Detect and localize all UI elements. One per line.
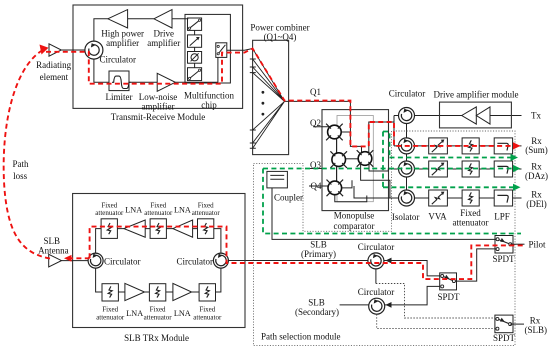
circulator SLB secondary xyxy=(369,298,385,314)
svg-text:(Sum): (Sum) xyxy=(525,145,548,155)
svg-text:Rx: Rx xyxy=(531,162,542,172)
svg-text:Circulator: Circulator xyxy=(358,287,395,297)
fixed attenuator row3 DAz xyxy=(462,161,479,177)
wire DAz row xyxy=(415,168,522,170)
green bypass1 arrowhead xyxy=(511,154,519,161)
svg-text:Path selection module: Path selection module xyxy=(261,332,340,342)
wire Q1 output xyxy=(285,100,351,102)
wire coupler to SLB primary line xyxy=(272,188,496,240)
SPDT mid box xyxy=(440,273,457,290)
drive amplifier stage 1 xyxy=(462,107,477,124)
chip attenuator cell 2 xyxy=(188,35,202,47)
multifunction chip box xyxy=(185,14,230,83)
isolator row4 DEl xyxy=(399,190,415,206)
svg-text:Q1: Q1 xyxy=(310,87,321,97)
hybrid h1 (Q2) xyxy=(326,124,343,141)
top fixed attenuator 3 xyxy=(198,219,214,239)
svg-text:LNA: LNA xyxy=(174,309,191,318)
svg-text:Tx: Tx xyxy=(531,111,541,121)
high power amplifier xyxy=(108,10,128,28)
circulator SLB right xyxy=(213,253,228,268)
limiter xyxy=(109,71,129,91)
svg-text:attenuator: attenuator xyxy=(192,209,221,217)
chip cell connector wires xyxy=(194,30,196,67)
svg-text:element: element xyxy=(40,72,69,82)
chip switch cell 1 xyxy=(188,18,202,30)
wire h4 termination U xyxy=(335,195,367,202)
svg-text:attenuator: attenuator xyxy=(144,209,173,217)
top fixed attenuator 2 xyxy=(150,219,166,239)
fixed attenuator row2 Sum xyxy=(462,138,479,154)
combiner fan lines xyxy=(253,49,285,149)
LPF row2 Sum xyxy=(494,138,512,154)
green bypass2 line xyxy=(383,186,514,188)
drive amplifier xyxy=(154,10,172,28)
LPF row4 DEl xyxy=(494,190,512,206)
chip SPDT switch xyxy=(216,43,227,58)
wire chip switch to bottom xyxy=(217,57,219,82)
VVA row2 Sum xyxy=(429,138,448,154)
green DAz arrowhead xyxy=(513,165,521,172)
circulator row3 DAz xyxy=(399,161,415,177)
svg-text:Isolator: Isolator xyxy=(392,212,420,222)
bottom row wire xyxy=(96,268,221,292)
svg-text:Circulator: Circulator xyxy=(104,256,141,266)
combiner input stubs xyxy=(250,59,256,148)
wire pilot xyxy=(510,243,524,245)
inner gray box xyxy=(337,116,373,202)
svg-text:LNA: LNA xyxy=(125,206,142,215)
wire h3 to h4 xyxy=(336,166,338,182)
svg-text:amplifier: amplifier xyxy=(147,38,180,48)
circulator column connector wires xyxy=(406,124,408,191)
svg-text:(Secondary): (Secondary) xyxy=(295,307,339,317)
wire Tx row xyxy=(415,115,522,117)
svg-text:Fixed: Fixed xyxy=(460,208,481,218)
svg-text:High power: High power xyxy=(101,29,144,39)
top LNA 2 xyxy=(173,220,193,237)
red Rx Sum arrowhead xyxy=(513,142,521,149)
green vertical branch xyxy=(382,132,384,188)
svg-text:Circulator: Circulator xyxy=(358,242,395,252)
low-noise amplifier xyxy=(157,73,175,91)
svg-text:Circulator: Circulator xyxy=(389,89,426,99)
svg-text:LPF: LPF xyxy=(494,212,510,222)
monopulse comparator box xyxy=(322,110,389,211)
chip phase shifter cell 3 xyxy=(188,52,202,64)
red arrowhead at radiating element xyxy=(40,45,49,55)
VVA row3 DAz xyxy=(429,161,448,177)
svg-text:(SLB): (SLB) xyxy=(525,325,548,335)
top row wire xyxy=(96,229,221,254)
svg-text:attenuator: attenuator xyxy=(193,313,222,321)
dotted wire secondary circ to Rx SLB switch xyxy=(377,314,495,328)
svg-text:attenuator: attenuator xyxy=(453,218,489,228)
svg-text:(Q1~Q4): (Q1~Q4) xyxy=(264,32,297,42)
svg-text:Rx: Rx xyxy=(531,190,542,200)
combiner dots xyxy=(262,91,265,94)
drive amplifier stage 2 xyxy=(476,107,490,124)
bottom fixed attenuator 2 xyxy=(149,284,165,301)
svg-text:(DEl): (DEl) xyxy=(526,199,547,209)
svg-text:SLB: SLB xyxy=(310,239,327,249)
wire top (circulator to chip) xyxy=(94,19,188,42)
green bridge to bypass1 xyxy=(383,132,390,158)
chip switch cell 4 xyxy=(188,68,202,81)
svg-text:Circulator: Circulator xyxy=(177,256,214,266)
svg-text:amplifier: amplifier xyxy=(142,102,175,112)
svg-text:SLB: SLB xyxy=(44,236,61,246)
svg-text:VVA: VVA xyxy=(428,212,447,222)
SPDT top box xyxy=(495,236,513,254)
svg-text:(DAz): (DAz) xyxy=(525,171,548,181)
bottom fixed attenuator 1 xyxy=(102,284,118,301)
svg-text:Circulator: Circulator xyxy=(100,54,137,64)
drive amplifier module xyxy=(440,102,512,128)
bottom LNA 2 xyxy=(173,283,192,300)
hybrid h3 (mid-left) xyxy=(330,151,347,168)
svg-text:Limiter: Limiter xyxy=(106,92,133,102)
svg-text:amplifier: amplifier xyxy=(106,38,139,48)
wire bottom (circulator to limiter to LNA to chip) xyxy=(94,59,218,82)
svg-text:Drive amplifier module: Drive amplifier module xyxy=(434,90,519,100)
svg-text:Radiating: Radiating xyxy=(36,60,71,70)
wire SLB secondary row xyxy=(340,286,440,305)
wire h1 to h3 xyxy=(336,139,338,154)
wire mid SPDT pole to top SPDT xyxy=(454,249,496,281)
arrow into primary circulator xyxy=(386,258,392,264)
wire sum feed down to row2 xyxy=(394,116,399,146)
wire chip switch output to combiner xyxy=(227,49,253,51)
Transmit-Receive Module box xyxy=(73,5,243,108)
svg-text:SPDT: SPDT xyxy=(493,333,516,343)
svg-text:loss: loss xyxy=(13,171,28,181)
red arrow into SLB antenna xyxy=(68,257,90,259)
fixed attenuator row4 DEl xyxy=(462,190,479,206)
red path through SLB TRx and path selection xyxy=(90,227,523,280)
svg-text:Pilot: Pilot xyxy=(528,240,546,250)
top LNA 1 xyxy=(124,220,145,237)
green pilot line coupler branch xyxy=(263,169,521,234)
wire sum output up and right xyxy=(369,122,394,153)
svg-text:Rx: Rx xyxy=(530,315,541,325)
coupler box xyxy=(267,171,288,188)
svg-text:chip: chip xyxy=(201,100,217,110)
green DAz row line xyxy=(263,168,514,170)
svg-text:LNA: LNA xyxy=(126,309,143,318)
circulator U0 xyxy=(85,41,103,59)
svg-text:SPDT: SPDT xyxy=(437,292,460,302)
svg-text:attenuator: attenuator xyxy=(96,313,125,321)
wire h2 lower-left port to circulator row 4 xyxy=(354,164,399,199)
circulator SLB left xyxy=(88,253,103,268)
wire DEl row xyxy=(415,197,522,199)
svg-text:SPDT: SPDT xyxy=(492,254,515,264)
SPDT bottom box xyxy=(495,315,513,333)
wire h2 lower port to circulator row 3 xyxy=(369,165,399,172)
svg-text:LNA: LNA xyxy=(174,206,191,215)
bottom LNA 1 xyxy=(125,283,145,300)
green bypass1 line xyxy=(390,157,512,159)
wire SLB primary row xyxy=(228,261,440,276)
VVA row4 DEl xyxy=(429,190,448,206)
red path through TR module xyxy=(46,49,514,147)
svg-text:attenuator: attenuator xyxy=(95,209,124,217)
svg-text:Power combiner: Power combiner xyxy=(250,22,309,32)
svg-text:SLB TRx Module: SLB TRx Module xyxy=(124,333,189,343)
svg-text:Antenna: Antenna xyxy=(38,245,69,255)
wire Rx SLB xyxy=(510,323,524,325)
circulator SLB primary xyxy=(368,253,384,269)
radiating element antenna xyxy=(49,44,61,56)
wire h3 to h2 xyxy=(345,158,358,160)
top fixed attenuator 1 xyxy=(101,219,117,239)
power combiner box xyxy=(253,40,289,154)
svg-text:Drive: Drive xyxy=(154,29,175,39)
wire Q1 down into comparator xyxy=(350,101,361,152)
svg-text:comparator: comparator xyxy=(334,221,375,231)
path selection module dotted boundary xyxy=(254,131,516,346)
arrow into secondary circulator xyxy=(386,302,392,308)
red path loss curve xyxy=(4,51,50,259)
wire h4 right port xyxy=(342,180,352,188)
bottom fixed attenuator 3 xyxy=(199,284,215,301)
SLB antenna xyxy=(49,254,62,267)
hybrid h4 (Q4) xyxy=(327,180,344,197)
svg-text:attenuator: attenuator xyxy=(144,313,173,321)
svg-text:Path: Path xyxy=(12,159,29,169)
circulator row2 Sum xyxy=(399,138,415,154)
hybrid h2 (mid-right) xyxy=(357,150,374,167)
svg-text:Transmit-Receive Module: Transmit-Receive Module xyxy=(111,112,205,122)
SLB TRx Module box xyxy=(73,194,245,328)
dotted wire primary circ to Rx SLB switch xyxy=(375,269,377,284)
svg-text:Monopulse: Monopulse xyxy=(334,211,375,221)
circulator row1 Tx xyxy=(399,108,415,124)
wire h1 right port xyxy=(341,131,350,133)
svg-text:(Primary): (Primary) xyxy=(301,249,336,259)
svg-text:Coupler: Coupler xyxy=(274,192,303,202)
LPF row3 DAz xyxy=(494,161,512,177)
wire Sum row xyxy=(394,145,522,147)
green bypass2 arrowhead xyxy=(513,184,521,191)
